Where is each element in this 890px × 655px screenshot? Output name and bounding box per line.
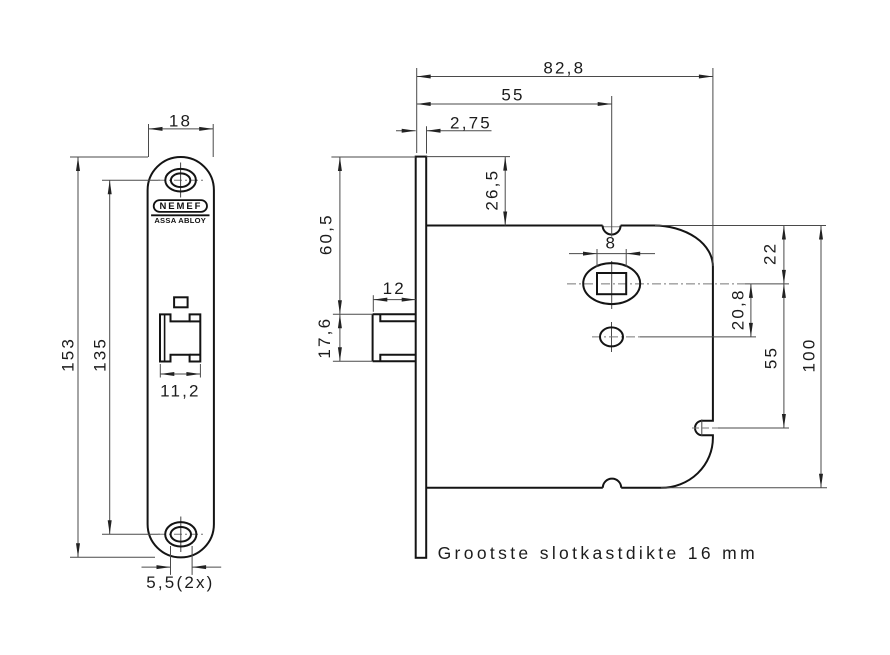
svg-text:11,2: 11,2 xyxy=(160,381,201,400)
svg-text:60,5: 60,5 xyxy=(316,213,335,255)
spindle square hole xyxy=(597,273,626,294)
svg-text:82,8: 82,8 xyxy=(543,59,585,78)
latch bolt step top xyxy=(380,314,415,321)
spindle hole circle xyxy=(583,263,640,304)
dim 82,8 extension left xyxy=(416,68,418,153)
svg-text:18: 18 xyxy=(169,112,192,131)
dim 2,75 right tail xyxy=(427,130,492,132)
svg-text:55: 55 xyxy=(762,346,781,369)
dim 18 arrow right xyxy=(199,127,213,131)
dim 20,8 arrow bottom xyxy=(749,323,753,337)
svg-text:26,5: 26,5 xyxy=(483,169,502,211)
dim 5,5(2x) extension left xyxy=(170,546,172,575)
dim 135 extension line top (to hole centerline) xyxy=(102,179,160,181)
latch top notch line right xyxy=(190,320,201,322)
dim 2,75 arrow right xyxy=(427,129,441,133)
svg-text:17,6: 17,6 xyxy=(315,317,334,359)
small hole circle xyxy=(600,327,623,346)
dim 17,6 arrow bottom xyxy=(338,347,342,361)
svg-text:8: 8 xyxy=(605,234,617,253)
latch cutout front view xyxy=(160,314,200,361)
dim 8 extension left xyxy=(596,249,598,267)
dim 55 top arrow left xyxy=(417,102,431,106)
dim 12 extension left xyxy=(372,295,374,312)
dim 11,2 extension left xyxy=(159,364,161,378)
dim 60,5 arrow bottom xyxy=(338,300,342,314)
dim 17,6 extension bottom xyxy=(333,360,373,362)
dim 100 arrow bottom xyxy=(819,474,823,488)
dim 82,8 arrow right xyxy=(699,75,713,79)
latch inner left line xyxy=(164,314,166,361)
dim 153 line xyxy=(77,157,79,557)
dim 8 arrow left xyxy=(583,252,597,256)
dim 82,8 arrow left xyxy=(417,75,431,79)
bottom screw hole outer xyxy=(165,522,196,546)
small hole centerline extension right xyxy=(640,336,756,338)
dim 135 arrow top xyxy=(108,180,112,194)
spindle hole centerline horizontal dashed xyxy=(567,283,745,285)
dim 18 line xyxy=(149,128,214,130)
dim 20,8 line xyxy=(750,284,752,337)
dim 8 arrow right xyxy=(626,252,640,256)
right notch centerline tick xyxy=(701,419,703,436)
latch bottom notch line right xyxy=(190,354,201,356)
spindle centerline extension right xyxy=(745,283,789,285)
dim 135 extension line bottom xyxy=(102,533,160,535)
dim 153 extension line top xyxy=(70,156,148,158)
dim 18 extension right xyxy=(212,124,214,157)
dim 55 top extension right xyxy=(611,96,613,237)
dim 26,5 arrow bottom xyxy=(503,212,507,226)
svg-text:NEMEF: NEMEF xyxy=(160,201,203,212)
dim 22 arrow top xyxy=(782,226,786,240)
NEMEF logo box xyxy=(154,200,207,212)
dim 11,2 line xyxy=(160,373,200,375)
faceplate top extension line right of bar xyxy=(426,156,510,158)
dim 135 arrow bottom xyxy=(108,520,112,534)
top screw hole outer xyxy=(165,169,196,192)
latch bolt step bottom xyxy=(380,355,415,361)
svg-text:22: 22 xyxy=(761,242,780,265)
svg-text:135: 135 xyxy=(91,337,110,372)
dim 5,5(2x) arrow right xyxy=(192,565,206,569)
dim 12 arrow left xyxy=(373,298,387,302)
dim 55 right arrow bottom xyxy=(782,414,786,428)
dim 55 top line xyxy=(417,103,612,105)
dim 2,75 extension right xyxy=(426,126,428,153)
faceplate side bar xyxy=(416,157,427,558)
svg-text:153: 153 xyxy=(59,337,78,372)
lock top extension right xyxy=(655,225,826,227)
svg-text:Grootste slotkastdikte 16 mm: Grootste slotkastdikte 16 mm xyxy=(438,543,758,563)
dim 17,6 line xyxy=(339,314,341,361)
dim 17,6 arrow top xyxy=(338,314,342,328)
latch bolt side view left edge xyxy=(372,314,374,361)
lock case outline xyxy=(426,225,713,487)
dim 11,2 arrow right xyxy=(186,372,200,376)
dim 26,5 arrow top xyxy=(503,157,507,171)
dim 5,5(2x) arrow left xyxy=(157,565,171,569)
dim 153 arrow top xyxy=(76,157,80,171)
dim 135 line xyxy=(109,180,111,534)
dim 18 extension left xyxy=(148,124,150,157)
bottom notch semicircle xyxy=(603,479,621,488)
top notch center tick xyxy=(603,226,621,228)
bottom screw hole centerline vertical xyxy=(180,517,182,553)
dim 8 extension right xyxy=(625,249,627,267)
dim 8 line xyxy=(569,253,655,255)
dim 100 line xyxy=(820,226,822,488)
dim 5,5(2x) extension right xyxy=(191,546,193,575)
dim 11,2 extension right xyxy=(199,364,201,378)
dim 2,75 left tail xyxy=(396,130,416,132)
bottom screw hole inner xyxy=(171,527,191,542)
dim 12 arrow right xyxy=(402,298,416,302)
faceplate outline xyxy=(148,157,214,557)
dim 153 arrow bottom xyxy=(76,543,80,557)
svg-text:12: 12 xyxy=(383,279,406,298)
spindle hole crosshair vertical xyxy=(611,261,613,309)
dim 55 top arrow right xyxy=(598,102,612,106)
top screw hole centerline vertical xyxy=(180,163,182,198)
lock bottom extension right xyxy=(661,487,827,489)
top notch semicircle xyxy=(603,226,621,235)
logo underline xyxy=(151,214,209,216)
dim 5,5(2x) line right tail xyxy=(192,566,221,568)
dim 100 arrow top xyxy=(819,226,823,240)
dim 22 arrow bottom xyxy=(782,270,786,284)
dim 17,6 extension top xyxy=(333,313,373,315)
latch bolt side view bottom edge xyxy=(373,360,416,362)
svg-text:2,75: 2,75 xyxy=(450,114,492,133)
notch extension right xyxy=(718,427,789,429)
svg-text:5,5(2x): 5,5(2x) xyxy=(146,573,214,592)
dim 153 extension line bottom xyxy=(70,556,155,558)
dim 55 right arrow top xyxy=(782,284,786,298)
dim 26,5 line xyxy=(504,157,506,226)
dim 82,8 extension right xyxy=(712,68,714,266)
small hole centerline horizontal xyxy=(592,336,640,338)
svg-text:ASSA ABLOY: ASSA ABLOY xyxy=(154,216,206,225)
faceplate top extension line xyxy=(331,156,415,158)
dim 2,75 arrow left xyxy=(402,129,416,133)
top screw hole inner xyxy=(171,173,190,187)
dim 55 right line xyxy=(783,284,785,428)
small square cutout xyxy=(174,297,188,307)
small hole crosshair vertical xyxy=(611,322,613,352)
svg-text:20,8: 20,8 xyxy=(729,288,748,330)
dim 18 arrow left xyxy=(149,127,163,131)
bottom screw hole centerline horizontal xyxy=(158,533,205,535)
dim 11,2 arrow left xyxy=(160,372,174,376)
dim 20,8 arrow top xyxy=(749,284,753,298)
dim 12 line xyxy=(373,299,415,301)
latch bolt side view top edge xyxy=(373,313,416,315)
dim 82,8 line xyxy=(417,76,713,78)
right notch centerline horizontal xyxy=(692,427,718,429)
dim 22 line xyxy=(783,226,785,284)
svg-text:100: 100 xyxy=(800,338,819,373)
top screw hole centerline horizontal xyxy=(158,179,204,181)
dim 5,5(2x) line left tail xyxy=(142,566,171,568)
dim 60,5 line xyxy=(339,157,341,314)
dim 60,5 arrow top xyxy=(338,157,342,171)
svg-text:55: 55 xyxy=(501,86,524,105)
